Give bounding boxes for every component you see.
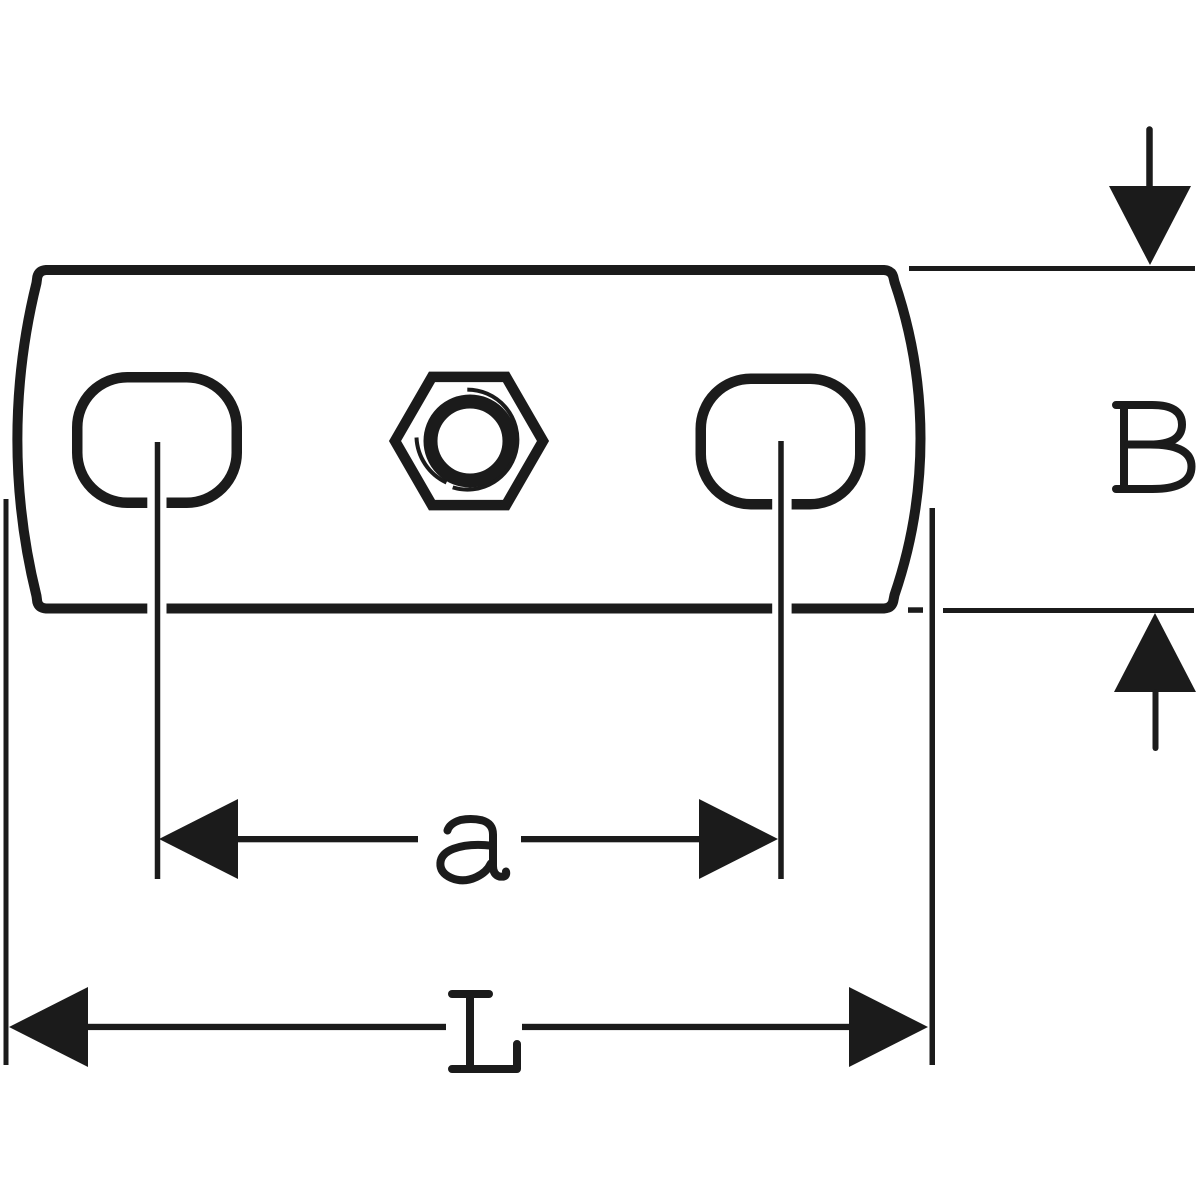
- a left arrowhead: [159, 799, 238, 879]
- nut thread arc lower-left: [417, 438, 447, 483]
- extension line L left: [4, 499, 9, 1065]
- B top arrow (down): [1146, 130, 1153, 188]
- gap in outline at left centerline: [147, 490, 166, 618]
- plate outline: [17, 270, 920, 609]
- gap in outline at right centerline: [772, 490, 791, 618]
- hex nut body: [395, 377, 543, 505]
- centerline of right hole: [778, 441, 784, 879]
- extension line B bottom: [943, 608, 1194, 613]
- nut thread ring: [431, 402, 510, 481]
- hole H2 (right slot): [701, 379, 861, 505]
- dimension L line right segment: [522, 1024, 851, 1030]
- label B: [1116, 405, 1192, 489]
- label L: [452, 994, 517, 1069]
- dimension a line left segment: [238, 836, 418, 842]
- extension line B top: [909, 266, 1195, 271]
- a right arrowhead: [699, 799, 778, 879]
- nut thread arc outer: [453, 390, 518, 490]
- L right arrowhead: [849, 987, 928, 1067]
- label a: [440, 819, 506, 880]
- hole H1 (left slot): [77, 377, 237, 503]
- dimension a line right segment: [521, 836, 700, 842]
- centerline of left hole: [155, 442, 161, 879]
- B bottom arrow (up): [1114, 613, 1196, 692]
- extension line L right: [930, 508, 936, 1065]
- dimension L line left segment: [87, 1024, 446, 1030]
- extension line B bottom dash: [908, 607, 923, 613]
- L left arrowhead: [9, 987, 88, 1067]
